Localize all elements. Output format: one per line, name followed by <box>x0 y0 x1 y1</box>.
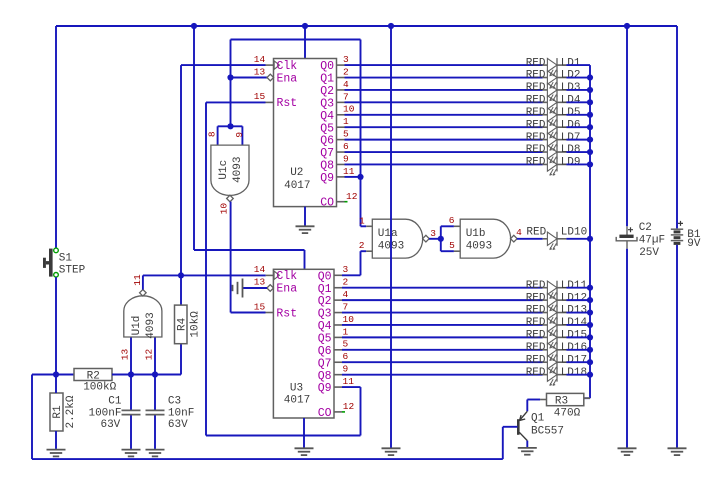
wire into U1b pin 5 <box>441 250 454 252</box>
wire LD1 cathode to bus <box>566 64 590 66</box>
junction cathode bus LD14 <box>587 322 593 328</box>
wire U3 Q2 to LD12 <box>342 299 543 301</box>
wire R1 top lead <box>55 375 57 394</box>
U3 pin stub Q2 <box>334 299 342 301</box>
LED LD11 <box>543 281 567 299</box>
wire top +9V rail <box>56 25 677 27</box>
svg-text:LD9: LD9 <box>561 157 581 169</box>
svg-text:Q9: Q9 <box>318 382 332 395</box>
svg-text:4: 4 <box>343 79 349 90</box>
svg-text:15: 15 <box>254 91 266 102</box>
svg-text:LD2: LD2 <box>561 70 581 82</box>
svg-text:1: 1 <box>343 116 349 127</box>
svg-text:Q6: Q6 <box>320 135 334 148</box>
svg-text:Clk: Clk <box>276 270 297 283</box>
U2 CO pin stub (pin 12, open) <box>337 201 345 203</box>
svg-text:14: 14 <box>254 264 266 275</box>
wire U2 VDD pin 16 <box>304 26 306 59</box>
wire cathode bus into R3 <box>572 397 590 399</box>
svg-text:10: 10 <box>343 104 355 115</box>
svg-text:3: 3 <box>430 228 436 239</box>
svg-text:RED: RED <box>526 280 546 292</box>
svg-text:4093: 4093 <box>466 240 492 252</box>
wire LD18 cathode to bus <box>566 374 590 376</box>
svg-text:14: 14 <box>254 54 266 65</box>
svg-text:6: 6 <box>343 141 349 152</box>
U2 pin stub Q7 <box>337 151 345 153</box>
LED LD8 <box>543 145 567 163</box>
ground under C2 <box>618 448 637 455</box>
wire U1b output pin 4 to LD10 <box>517 238 543 240</box>
svg-text:5: 5 <box>343 129 349 140</box>
svg-text:1: 1 <box>359 216 365 227</box>
junction cathode bus LD3 <box>587 87 593 93</box>
junction top rail / C2 <box>624 23 630 29</box>
junction cathode bus LD18 <box>587 372 593 378</box>
capacitor C2 (electrolytic) <box>616 226 637 249</box>
wire LD5 cathode to bus <box>566 114 590 116</box>
svg-text:LD14: LD14 <box>561 317 588 329</box>
U3 pin stubs left <box>266 275 274 312</box>
U2 pin stub Q0 <box>337 64 345 66</box>
svg-text:7: 7 <box>343 301 349 312</box>
wire U2 Rst net vertical <box>205 102 207 435</box>
wire U3 Q0 pin 3 <box>342 274 361 276</box>
svg-text:10: 10 <box>343 314 355 325</box>
wire U1c input tee <box>218 125 243 127</box>
svg-text:2.2kΩ: 2.2kΩ <box>65 395 77 428</box>
wire U3 Q9 pin 11 <box>342 386 361 388</box>
wire U1d pin 12 input <box>154 337 156 375</box>
LED LD13 <box>543 306 567 324</box>
junction node A (S1/R1/R2) <box>53 371 59 377</box>
wire Q9 net down to U1c inputs <box>230 40 232 127</box>
svg-text:LD8: LD8 <box>561 144 581 156</box>
wire C2 top lead <box>626 26 628 226</box>
wire U1a output pin 3 <box>429 238 441 240</box>
svg-text:Q8: Q8 <box>320 160 334 173</box>
svg-text:RED: RED <box>526 107 546 119</box>
U3 VSS ground wire <box>303 418 305 448</box>
wire U2 Q0 to LD1 <box>345 64 543 66</box>
svg-text:LD7: LD7 <box>561 132 581 144</box>
U3 CO pin stub (pin 12, open) <box>334 411 342 413</box>
svg-text:Q9: Q9 <box>320 172 334 185</box>
wire R4 top lead <box>180 275 182 305</box>
wire into U1a pin 2 <box>361 250 367 252</box>
junction cathode bus LD8 <box>587 149 593 155</box>
ground under C3 <box>146 450 165 457</box>
wire LD13 cathode to bus <box>566 312 590 314</box>
resistor R1 <box>50 393 64 431</box>
svg-text:RED: RED <box>526 57 546 69</box>
LED LD6 <box>543 120 567 138</box>
svg-text:47µF: 47µF <box>639 235 665 247</box>
wire down to Q1 emitter <box>526 400 528 412</box>
op-amp U1c NAND gate 4093 <box>211 145 249 202</box>
svg-text:LD5: LD5 <box>561 107 581 119</box>
svg-text:Q1: Q1 <box>320 73 334 86</box>
wire U3 Q3 to LD13 <box>342 312 543 314</box>
ground under Q1 <box>518 448 537 455</box>
U2 pin stub Q2 <box>337 89 345 91</box>
wire U3 Q4 to LD14 <box>342 324 543 326</box>
wire U1b input tee <box>440 226 442 251</box>
svg-text:U1c: U1c <box>218 160 230 180</box>
svg-text:12: 12 <box>343 401 355 412</box>
battery B1 <box>671 221 683 244</box>
svg-text:LD10: LD10 <box>561 227 587 239</box>
wire Q1 base down to feedback rail <box>502 427 504 459</box>
U2 VSS ground wire <box>304 207 306 226</box>
ground under C1 <box>122 450 141 457</box>
U3 pin stub Q3 <box>334 312 342 314</box>
svg-text:RED: RED <box>526 305 546 317</box>
wire U3 Q8 to LD18 <box>342 374 543 376</box>
wire U2 Rst net bottom horizontal <box>206 435 361 437</box>
U3 pin stub Q7 <box>334 361 342 363</box>
wire U3 Ena to ground symbol <box>243 287 268 289</box>
svg-text:Q2: Q2 <box>318 295 332 308</box>
wire U1d pin 13 input <box>130 337 132 375</box>
wire up to U3 Q9 <box>360 387 362 435</box>
svg-text:RED: RED <box>526 354 546 366</box>
svg-text:6: 6 <box>449 215 455 226</box>
resistor R2 <box>74 369 112 383</box>
wire left rail down to S1 <box>55 26 57 249</box>
U3 clock triangle pin 14 <box>274 271 279 279</box>
svg-text:RED: RED <box>526 95 546 107</box>
svg-text:10nF: 10nF <box>168 407 194 419</box>
U3 pin stub Q4 <box>334 324 342 326</box>
svg-text:LD1: LD1 <box>561 57 581 69</box>
wire LD2 cathode to bus <box>566 77 590 79</box>
svg-text:9: 9 <box>234 132 245 138</box>
junction cathode bus LD6 <box>587 124 593 130</box>
svg-text:13: 13 <box>254 277 266 288</box>
svg-text:U1b: U1b <box>466 228 486 240</box>
svg-text:BC557: BC557 <box>531 426 564 438</box>
svg-text:5: 5 <box>449 240 455 251</box>
svg-text:10kΩ: 10kΩ <box>190 311 202 338</box>
svg-text:Q4: Q4 <box>318 320 332 333</box>
LED LD5 <box>543 108 567 126</box>
svg-text:10: 10 <box>218 203 229 215</box>
U3 pin stub Q6 <box>334 349 342 351</box>
capacitor C1 <box>122 410 141 414</box>
wire into U2 Ena pin 13 <box>231 77 268 79</box>
ground at U3 Ena (rotated) <box>233 279 243 298</box>
wire middle vertical bus <box>390 26 392 448</box>
wire LD11 cathode to bus <box>566 287 590 289</box>
LED LD15 <box>543 330 567 348</box>
wire into U3 Rst pin 15 <box>231 312 266 314</box>
svg-text:Ena: Ena <box>276 283 297 296</box>
U2 pin stubs left <box>266 65 274 102</box>
svg-text:63V: 63V <box>168 419 188 431</box>
wire U2 Q6 to LD7 <box>345 139 543 141</box>
svg-text:LD15: LD15 <box>561 330 587 342</box>
capacitor C3 <box>146 410 165 414</box>
wire U3 Q5 to LD15 <box>342 336 543 338</box>
svg-text:LD11: LD11 <box>561 280 588 292</box>
IC U3 4017 <box>273 269 334 418</box>
LED LD18 <box>543 368 567 386</box>
junction U2 Q9 <box>357 174 363 180</box>
IC U2 4017 <box>274 59 337 207</box>
wire B1 negative lead <box>676 245 678 448</box>
svg-text:11: 11 <box>132 274 143 286</box>
resistor R3 <box>547 393 584 407</box>
junction cathode bus LD16 <box>587 347 593 353</box>
svg-text:S1: S1 <box>59 252 73 264</box>
LED LD4 <box>543 95 567 113</box>
svg-text:12: 12 <box>144 349 155 361</box>
ground under U2 <box>296 226 315 233</box>
junction cathode bus LD5 <box>587 112 593 118</box>
wire U1c output pin 10 down to U3 Rst <box>230 202 232 313</box>
wire LD16 cathode to bus <box>566 349 590 351</box>
wire U2 Q8 to LD9 <box>345 163 543 165</box>
svg-text:RED: RED <box>526 157 546 169</box>
LED LD14 <box>543 318 567 336</box>
svg-text:Q3: Q3 <box>320 97 334 110</box>
wire left feedback vertical <box>31 375 33 460</box>
svg-text:Q5: Q5 <box>318 333 332 346</box>
svg-text:R1: R1 <box>52 405 64 419</box>
wire U3 Q7 to LD17 <box>342 361 543 363</box>
resistor R4 <box>175 305 189 344</box>
wire U2 Q1 to LD2 <box>345 77 543 79</box>
svg-text:C1: C1 <box>108 395 122 407</box>
wire bottom feedback rail to Q1 base <box>32 458 503 460</box>
junction cathode bus LD9 <box>587 161 593 167</box>
svg-text:Clk: Clk <box>277 60 298 73</box>
wire R1 bottom lead <box>55 431 57 449</box>
wire U3 Q1 to LD11 <box>342 287 543 289</box>
junction cathode bus LD2 <box>587 74 593 80</box>
svg-text:LD12: LD12 <box>561 292 587 304</box>
U1a pin stubs <box>366 226 372 251</box>
svg-text:2: 2 <box>343 277 349 288</box>
U2 clock triangle pin 14 <box>274 61 279 69</box>
svg-text:LD13: LD13 <box>561 305 587 317</box>
wire C3 top lead <box>154 375 156 410</box>
wire LD9 cathode to bus <box>566 163 590 165</box>
wire LD7 cathode to bus <box>566 139 590 141</box>
svg-text:LD17: LD17 <box>561 354 587 366</box>
svg-text:8: 8 <box>207 131 218 137</box>
svg-text:4093: 4093 <box>145 312 157 338</box>
wire U2 Q4 to LD5 <box>345 114 543 116</box>
svg-text:Rst: Rst <box>276 307 297 320</box>
svg-text:7: 7 <box>343 91 349 102</box>
junction top rail / middle bus <box>388 23 394 29</box>
wire into U2 Clk pin 14 <box>181 64 266 66</box>
wire LD14 cathode to bus <box>566 324 590 326</box>
op-amp U1a NAND gate 4093 <box>372 219 429 258</box>
U2 pin stub Q3 <box>337 101 345 103</box>
svg-text:RED: RED <box>526 342 546 354</box>
ground middle bus <box>382 448 401 455</box>
wire LD15 cathode to bus <box>566 336 590 338</box>
wire node A horizontal to R2 <box>32 374 74 376</box>
svg-text:100nF: 100nF <box>88 407 121 419</box>
svg-text:Q7: Q7 <box>318 357 332 370</box>
wire C1 node to C3 node <box>131 374 155 376</box>
wire S1 to R2 node <box>55 277 57 374</box>
svg-text:R3: R3 <box>555 395 568 407</box>
junction cathode bus LD4 <box>587 99 593 105</box>
svg-text:11: 11 <box>343 166 355 177</box>
svg-text:Q6: Q6 <box>318 345 332 358</box>
U3 pin stub Q1 <box>334 287 342 289</box>
junction cathode bus LD7 <box>587 137 593 143</box>
wire B1 positive lead from rail <box>676 26 678 228</box>
svg-text:RED: RED <box>526 330 546 342</box>
wire U2 Q2 to LD3 <box>345 89 543 91</box>
wire LD17 cathode to bus <box>566 361 590 363</box>
U3 pin stub Q5 <box>334 336 342 338</box>
svg-text:RED: RED <box>526 317 546 329</box>
svg-text:U3: U3 <box>290 383 303 395</box>
svg-text:25V: 25V <box>639 247 659 259</box>
wire U2 Q5 to LD6 <box>345 126 543 128</box>
wire U1c pin 9 stub <box>241 126 243 145</box>
svg-text:13: 13 <box>254 66 266 77</box>
wire U2 Q3 to LD4 <box>345 101 543 103</box>
svg-text:Q0: Q0 <box>318 270 332 283</box>
wire LD10 cathode to bus <box>566 238 590 240</box>
svg-text:C2: C2 <box>639 222 652 234</box>
svg-text:LD16: LD16 <box>561 342 587 354</box>
svg-text:13: 13 <box>120 349 131 361</box>
svg-text:3: 3 <box>343 54 349 65</box>
U2 pin stub Q8 <box>337 163 345 165</box>
wire clock net up to U2 Clk <box>180 65 182 275</box>
wire U1d output pin 11 <box>142 275 144 289</box>
svg-text:4017: 4017 <box>284 394 310 406</box>
svg-text:U2: U2 <box>290 167 303 179</box>
wire U2 Q9 net top horizontal <box>231 39 361 41</box>
U2 pin stub Q4 <box>337 114 345 116</box>
switch S1 (push button) <box>43 248 58 277</box>
junction cathode bus LD12 <box>587 297 593 303</box>
LED LD2 <box>543 71 567 89</box>
wire U2 Q7 to LD8 <box>345 151 543 153</box>
wire C3 bottom lead <box>154 415 156 449</box>
U2 pin stub Q1 <box>337 77 345 79</box>
svg-text:RED: RED <box>526 144 546 156</box>
op-amp U1b NAND gate 4093 <box>460 219 517 258</box>
wire Q1 collector to ground <box>526 441 528 448</box>
svg-text:Q8: Q8 <box>318 370 332 383</box>
svg-text:4017: 4017 <box>284 180 310 192</box>
op-amp U1d NAND gate 4093 <box>124 290 162 339</box>
svg-text:9: 9 <box>343 364 349 375</box>
svg-text:RED: RED <box>526 132 546 144</box>
U3 pin stub Q9 <box>334 386 342 388</box>
wire LD6 cathode to bus <box>566 126 590 128</box>
U2 Ena bubble pin 13 <box>267 74 274 81</box>
svg-text:2: 2 <box>359 240 365 251</box>
svg-text:Q1: Q1 <box>318 283 332 296</box>
wire R4 bottom lead <box>180 344 182 375</box>
svg-text:4: 4 <box>516 227 522 238</box>
wire R3 left lead <box>527 399 540 401</box>
U1b pin stubs <box>454 226 460 251</box>
svg-text:470Ω: 470Ω <box>554 408 581 420</box>
svg-text:11: 11 <box>343 376 355 387</box>
svg-text:LD3: LD3 <box>561 82 581 94</box>
svg-text:9V: 9V <box>687 238 701 250</box>
svg-text:STEP: STEP <box>59 265 86 277</box>
svg-text:Q7: Q7 <box>320 147 334 160</box>
svg-text:Q0: Q0 <box>320 60 334 73</box>
svg-text:Q5: Q5 <box>320 122 334 135</box>
svg-text:3: 3 <box>343 264 349 275</box>
ground under R1 <box>47 450 66 457</box>
wire LED cathode bus <box>589 65 591 398</box>
junction cathode bus LD11 <box>587 285 593 291</box>
svg-text:CO: CO <box>320 197 334 210</box>
svg-text:RED: RED <box>526 119 546 131</box>
wire C3 node to R4 bottom <box>155 374 181 376</box>
wire into U1b pin 6 <box>441 225 454 227</box>
svg-text:100kΩ: 100kΩ <box>83 381 116 393</box>
svg-text:RED: RED <box>526 82 546 94</box>
svg-text:1: 1 <box>343 326 349 337</box>
wire Q1 base <box>503 426 518 428</box>
svg-text:U1d: U1d <box>131 316 143 336</box>
junction C1 / U1d pin 13 <box>128 371 134 377</box>
svg-text:LD6: LD6 <box>561 119 581 131</box>
U2 pin stub Q6 <box>337 139 345 141</box>
junction top rail / U3 VDD feed <box>191 23 197 29</box>
wire U1a pin 2 down to U3 Q0 <box>360 251 362 275</box>
wire LD4 cathode to bus <box>566 101 590 103</box>
svg-text:Q4: Q4 <box>320 110 334 123</box>
wire into U1a pin 1 <box>361 225 367 227</box>
LED LD9 <box>543 157 567 175</box>
svg-text:Q1: Q1 <box>531 413 545 425</box>
wire U2 Q9 pin 11 <box>345 176 361 178</box>
wire U1c pin 8 stub <box>217 126 219 145</box>
wire U3 Q6 to LD16 <box>342 349 543 351</box>
junction U1c input pins <box>227 123 233 129</box>
LED LD10 <box>543 232 567 250</box>
wire LD3 cathode to bus <box>566 89 590 91</box>
svg-text:RED: RED <box>526 292 546 304</box>
svg-text:6: 6 <box>343 351 349 362</box>
R3 lead stubs <box>540 398 590 399</box>
U2 pin stub Q5 <box>337 126 345 128</box>
transistor Q1 BC557 (PNP) <box>518 411 527 440</box>
LED LD7 <box>543 133 567 151</box>
svg-text:C3: C3 <box>168 395 181 407</box>
svg-text:2: 2 <box>343 66 349 77</box>
junction C3 / U1d pin 12 <box>152 371 158 377</box>
svg-text:15: 15 <box>254 301 266 312</box>
U3 pin stub Q0 <box>334 274 342 276</box>
svg-text:4093: 4093 <box>232 156 244 182</box>
U2 pin stub Q9 <box>337 176 345 178</box>
LED LD12 <box>543 293 567 311</box>
svg-text:RED: RED <box>526 367 546 379</box>
wire C2 bottom lead <box>626 249 628 448</box>
ground under B1 <box>668 448 687 455</box>
junction cathode bus LD13 <box>587 309 593 315</box>
